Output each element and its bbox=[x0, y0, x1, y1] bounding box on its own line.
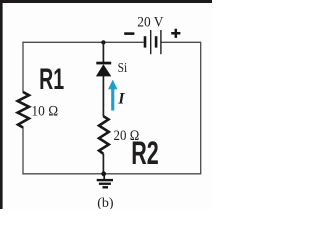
battery 20V: negative sign bbox=[124, 32, 134, 35]
svg-text:Si: Si bbox=[118, 60, 128, 75]
battery 20V: positive sign bbox=[171, 29, 180, 38]
resistor R1 zigzag bbox=[18, 92, 29, 128]
node dot: top junction bbox=[101, 40, 105, 44]
wire left lower bbox=[22, 127, 24, 175]
wire top-left segment bbox=[22, 41, 143, 43]
resistor R2 zigzag bbox=[99, 116, 109, 154]
wire middle branch: diode to R2 bbox=[102, 76, 104, 117]
diode D1: anode triangle (pointing up) bbox=[96, 64, 111, 76]
battery plate: long thin (pos) bbox=[150, 30, 151, 54]
svg-text:I: I bbox=[117, 91, 125, 108]
wire bottom bbox=[22, 173, 201, 175]
svg-text:20 V: 20 V bbox=[137, 14, 164, 30]
diode D1: cathode bar bbox=[96, 62, 111, 65]
wire left upper bbox=[22, 42, 24, 93]
wire top-right segment bbox=[161, 41, 200, 43]
svg-text:R1: R1 bbox=[39, 63, 64, 96]
svg-text:R2: R2 bbox=[131, 135, 159, 171]
battery plate: short thick (neg) bbox=[155, 36, 158, 47]
battery plate: long thin (pos) bbox=[160, 30, 161, 54]
battery plate: short thick (neg) bbox=[144, 36, 147, 47]
svg-text:10 Ω: 10 Ω bbox=[31, 104, 58, 120]
ground bar 1 bbox=[97, 179, 113, 181]
wire middle branch: dot to diode bbox=[102, 42, 104, 62]
current arrow I (blue, pointing up) bbox=[108, 80, 117, 111]
ground stub bbox=[103, 174, 105, 179]
ground bar 2 bbox=[99, 183, 111, 185]
ground bar 3 bbox=[103, 186, 109, 188]
svg-text:(b): (b) bbox=[97, 196, 114, 209]
wire right side bbox=[200, 42, 202, 174]
wire middle branch: R2 to bottom bbox=[102, 154, 104, 174]
node dot: bottom junction bbox=[101, 171, 106, 176]
